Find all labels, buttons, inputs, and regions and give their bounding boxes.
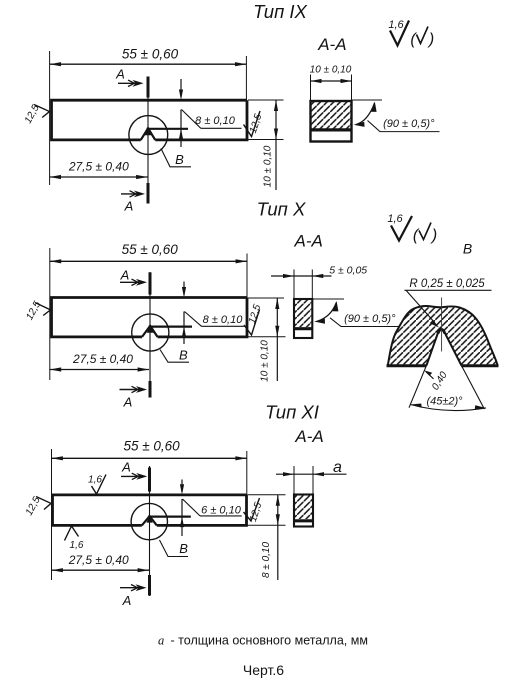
detail B notch flanks — [426, 329, 461, 365]
svg-text:А-А: А-А — [294, 232, 323, 251]
svg-text:): ) — [430, 227, 437, 244]
svg-text:А: А — [115, 67, 125, 82]
roughness 12,5 left X — [24, 299, 50, 322]
label B with leader XI — [160, 540, 189, 557]
svg-text:8 ± 0,10: 8 ± 0,10 — [261, 542, 272, 579]
svg-text:10 ± 0,10: 10 ± 0,10 — [262, 145, 273, 187]
dimension a section XI — [276, 459, 347, 495]
roughness 12,5 left XI — [24, 495, 51, 518]
svg-text:8 ± 0,10: 8 ± 0,10 — [203, 314, 244, 326]
detail B dome hatched — [388, 306, 498, 367]
dimension 27,5±0,40 XI — [52, 553, 150, 572]
svg-text:55 ± 0,60: 55 ± 0,60 — [122, 47, 179, 62]
svg-text:(90 ± 0,5)°: (90 ± 0,5)° — [383, 118, 435, 130]
svg-text:А: А — [120, 267, 130, 282]
notch XI — [142, 516, 157, 525]
dimension 55±0,60 XI — [52, 439, 247, 581]
section line A-A X — [149, 272, 151, 397]
title Tip XI — [265, 402, 319, 423]
view arrow A top X — [120, 267, 147, 285]
bottom captions — [158, 634, 368, 679]
section line A-A IX — [147, 77, 149, 204]
dimension 8±0,10 IX — [179, 79, 242, 147]
roughness 1,6 bottom face XI — [65, 526, 84, 551]
view arrow A bottom X — [120, 386, 148, 409]
dimension 10±0,10 right IX — [248, 100, 284, 190]
svg-text:В: В — [463, 241, 472, 257]
dimension 8±0,10 X — [182, 282, 245, 345]
label A-A XI — [294, 427, 323, 446]
svg-text:1,6: 1,6 — [70, 540, 84, 551]
label R0,25±0,025 — [405, 278, 492, 328]
detail B flank extensions — [409, 366, 484, 410]
svg-text:55 ± 0,60: 55 ± 0,60 — [123, 439, 180, 454]
roughness symbol 1,6 (v) middle right — [387, 213, 437, 244]
label A-A X — [294, 232, 323, 251]
roughness 12,5 left IX — [23, 103, 50, 126]
svg-text:10 ± 0,10: 10 ± 0,10 — [310, 65, 352, 76]
label 0,40 — [424, 370, 450, 393]
svg-text:а - толщина основного металла,: а - толщина основного металла, мм — [158, 634, 368, 648]
roughness 12,5 right X — [244, 303, 263, 335]
roughness 12,5 right XI — [244, 498, 265, 523]
svg-text:Черт.6: Черт.6 — [243, 662, 284, 678]
svg-text:1,6: 1,6 — [88, 475, 102, 486]
svg-text:1,6: 1,6 — [387, 213, 403, 225]
svg-text:Тип IX: Тип IX — [253, 1, 307, 22]
label A-A IX — [317, 35, 346, 54]
bar IX outline — [52, 100, 248, 140]
title Tip X — [257, 199, 306, 220]
svg-text:Тип X: Тип X — [257, 199, 306, 220]
dimension 10±0,10 section IX — [310, 65, 352, 101]
view arrow A top XI — [121, 459, 147, 480]
label B detail — [463, 241, 472, 257]
angle (45±2) arc — [410, 396, 486, 411]
section rect X — [294, 299, 312, 338]
svg-text:В: В — [175, 152, 184, 167]
svg-text:А: А — [122, 593, 132, 608]
detail B base thick lines — [387, 364, 499, 367]
angle leader (90±0,5) X — [312, 299, 399, 327]
detail circle B X — [132, 314, 169, 351]
svg-text:5 ± 0,05: 5 ± 0,05 — [329, 265, 367, 277]
roughness 12,5 right IX — [244, 111, 265, 137]
notch depth line IX — [147, 128, 189, 130]
svg-text:): ) — [427, 31, 434, 48]
dimension 6±0,10 XI — [180, 480, 242, 537]
svg-text:А: А — [123, 395, 133, 410]
svg-text:10 ± 0,10: 10 ± 0,10 — [259, 340, 270, 382]
bar XI outline — [53, 495, 247, 526]
svg-text:27,5 ± 0,40: 27,5 ± 0,40 — [72, 352, 133, 366]
svg-text:a: a — [333, 459, 342, 476]
detail circle B XI — [131, 503, 167, 539]
svg-text:В: В — [179, 348, 188, 363]
detail circle B IX — [129, 116, 168, 155]
svg-text:А-А: А-А — [294, 427, 323, 446]
title Tip IX — [253, 1, 307, 22]
svg-text:А: А — [124, 199, 134, 214]
svg-text:А: А — [121, 459, 131, 474]
svg-text:А-А: А-А — [317, 35, 346, 54]
notch depth line X — [149, 326, 193, 328]
notch X — [142, 326, 158, 337]
svg-text:27,5 ± 0,40: 27,5 ± 0,40 — [68, 553, 129, 567]
view arrow A bottom XI — [120, 584, 147, 608]
bar X outline — [52, 298, 248, 337]
svg-text:8 ± 0,10: 8 ± 0,10 — [195, 115, 236, 127]
dimension 8±0,10 right XI — [248, 495, 286, 580]
section rect IX — [311, 101, 352, 142]
dimension 55±0,60 X — [50, 242, 247, 380]
section rect XI — [294, 495, 313, 527]
label B with leader IX — [161, 149, 191, 168]
angle leader (90±0,5) IX — [352, 100, 440, 132]
dimension 10±0,10 right X — [248, 298, 286, 382]
dimension 27,5±0,40 X — [50, 352, 149, 372]
label B with leader X — [160, 348, 189, 363]
roughness symbol 1,6 (v) top right — [388, 19, 434, 48]
dimension 5±0,05 section X — [271, 265, 367, 300]
svg-text:(45±2)°: (45±2)° — [426, 396, 463, 408]
notch depth line XI — [148, 515, 191, 517]
dimension 55±0,60 IX — [50, 47, 247, 186]
svg-text:(90 ± 0,5)°: (90 ± 0,5)° — [344, 313, 396, 325]
svg-text:1,6: 1,6 — [388, 19, 404, 31]
roughness 1,6 top face XI — [88, 475, 106, 495]
notch IX — [141, 128, 155, 140]
svg-text:55 ± 0,60: 55 ± 0,60 — [122, 242, 179, 257]
view arrow A bottom IX — [121, 191, 145, 214]
svg-text:6 ± 0,10: 6 ± 0,10 — [201, 505, 242, 517]
svg-text:27,5 ± 0,40: 27,5 ± 0,40 — [68, 160, 129, 174]
view arrow A top IX — [115, 67, 143, 87]
svg-text:R 0,25 ± 0,025: R 0,25 ± 0,025 — [409, 278, 485, 290]
dimension 27,5±0,40 IX — [50, 160, 148, 180]
section line A-A XI — [149, 466, 151, 596]
detail B centerline — [441, 298, 443, 352]
svg-text:В: В — [179, 541, 188, 556]
svg-text:Тип XI: Тип XI — [265, 402, 319, 423]
